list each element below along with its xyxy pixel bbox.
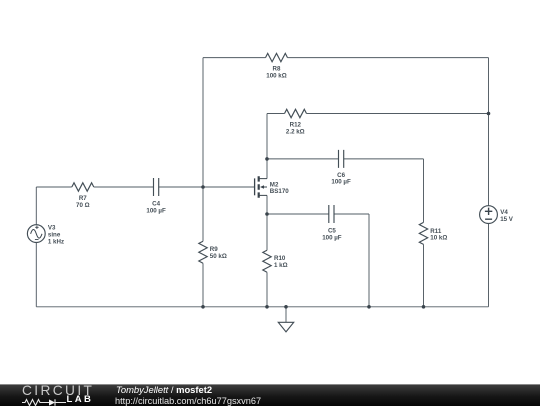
svg-text:70 Ω: 70 Ω	[76, 202, 90, 209]
svg-text:50 kΩ: 50 kΩ	[210, 253, 227, 260]
svg-text:BS170: BS170	[270, 188, 289, 195]
svg-text:10 kΩ: 10 kΩ	[430, 235, 447, 242]
svg-text:1 kHz: 1 kHz	[48, 238, 64, 245]
svg-text:100 µF: 100 µF	[322, 235, 342, 242]
svg-text:100 kΩ: 100 kΩ	[266, 72, 286, 79]
svg-text:1 kΩ: 1 kΩ	[274, 262, 288, 269]
svg-text:100 µF: 100 µF	[146, 208, 166, 215]
svg-text:15 V: 15 V	[500, 216, 514, 223]
svg-text:100 µF: 100 µF	[331, 179, 351, 186]
svg-text:2.2 kΩ: 2.2 kΩ	[286, 128, 305, 135]
